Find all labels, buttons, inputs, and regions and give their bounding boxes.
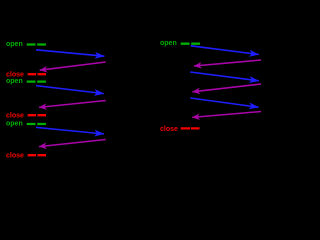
svg-text:open: open — [6, 41, 23, 48]
svg-text:close: close — [160, 126, 178, 133]
svg-text:open: open — [160, 40, 177, 47]
svg-text:open: open — [6, 121, 23, 128]
svg-text:close: close — [6, 153, 24, 160]
svg-text:open: open — [6, 78, 23, 85]
svg-text:close: close — [6, 113, 24, 120]
